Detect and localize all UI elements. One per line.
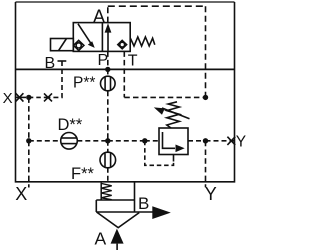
relief valve spring	[167, 102, 180, 128]
wire: X vertical to pilot line	[28, 97, 30, 140]
node: T/drain junction	[203, 95, 208, 100]
valve spring	[130, 37, 155, 46]
relief valve V1	[159, 128, 188, 155]
svg-text:A: A	[95, 229, 107, 249]
wire: P line from valve to cover	[107, 51, 109, 69]
port B plug bar	[58, 60, 67, 62]
node: drain junction at Y	[203, 138, 208, 143]
cover top line	[16, 68, 235, 70]
port B arrow	[152, 206, 171, 219]
svg-text:X: X	[15, 184, 27, 204]
relief setting arrow	[154, 107, 190, 118]
wire: T line horizontal to drain	[124, 96, 205, 98]
wire: F junction down to F orifice	[107, 141, 109, 153]
svg-text:Y: Y	[205, 184, 217, 204]
svg-text:D**: D**	[58, 116, 83, 134]
enclosure (valve block outline)	[16, 2, 235, 182]
port A arrow	[111, 229, 124, 250]
wire: pilot line D to F junction	[77, 140, 108, 142]
wire: drain line to bottom Y	[205, 141, 207, 188]
valve right position: orifice diamond	[118, 40, 127, 48]
wire: X entry segment	[16, 96, 27, 98]
orifice P**	[101, 69, 116, 90]
wire: relief outlet to drain	[188, 140, 206, 142]
wire: plugged B passage	[48, 61, 62, 97]
pilot valve U1 body	[73, 23, 130, 52]
plug cross on X-B branch	[44, 93, 52, 101]
orifice D**	[61, 133, 78, 150]
plug cross on X entry	[16, 93, 24, 101]
valve left position: orifice diamond	[74, 40, 84, 50]
node: P junction on cover line	[105, 67, 110, 72]
node: F junction	[105, 138, 110, 143]
node: X pilot-line junction	[26, 138, 31, 143]
wire: Y branch to right edge	[206, 140, 235, 142]
svg-text:Y: Y	[236, 134, 246, 151]
wire: X to plugged B branch	[29, 96, 48, 98]
main stage cartridge	[96, 182, 157, 228]
main stage spring	[100, 183, 102, 200]
valve left position: diagonal arrow	[78, 24, 95, 48]
wire: pilot line X to D orifice	[29, 140, 61, 142]
wire: A line across top	[108, 5, 206, 7]
svg-text:A: A	[93, 6, 105, 26]
main stage sleeve	[96, 199, 134, 201]
node: X junction	[26, 95, 31, 100]
svg-text:X: X	[3, 90, 13, 107]
valve right position: up arrow P to A	[105, 23, 112, 51]
wire: F orifice to main stage	[107, 168, 109, 182]
svg-text:F**: F**	[71, 165, 95, 183]
wire: pilot line F to relief	[108, 140, 145, 142]
wire: P orifice down to pilot line	[107, 91, 109, 141]
wire: A line up from valve	[107, 6, 109, 22]
wire: X stub to bottom	[28, 141, 30, 188]
relief valve pilot loop	[145, 141, 174, 166]
svg-text:P: P	[98, 52, 109, 69]
wire: T line from valve down	[123, 51, 125, 97]
main stage poppet seat	[97, 212, 140, 228]
svg-text:B: B	[45, 55, 56, 72]
svg-text:T: T	[128, 52, 138, 69]
svg-text:B: B	[138, 194, 149, 213]
solenoid	[51, 39, 74, 51]
main stage B line	[96, 211, 157, 213]
svg-text:P**: P**	[73, 74, 95, 91]
wire: right vertical drain line upper	[205, 6, 207, 97]
plug cross on Y exit	[227, 137, 235, 145]
wire: to relief valve inlet	[145, 140, 159, 142]
orifice F**	[100, 152, 116, 168]
node: relief inlet junction	[142, 138, 147, 143]
